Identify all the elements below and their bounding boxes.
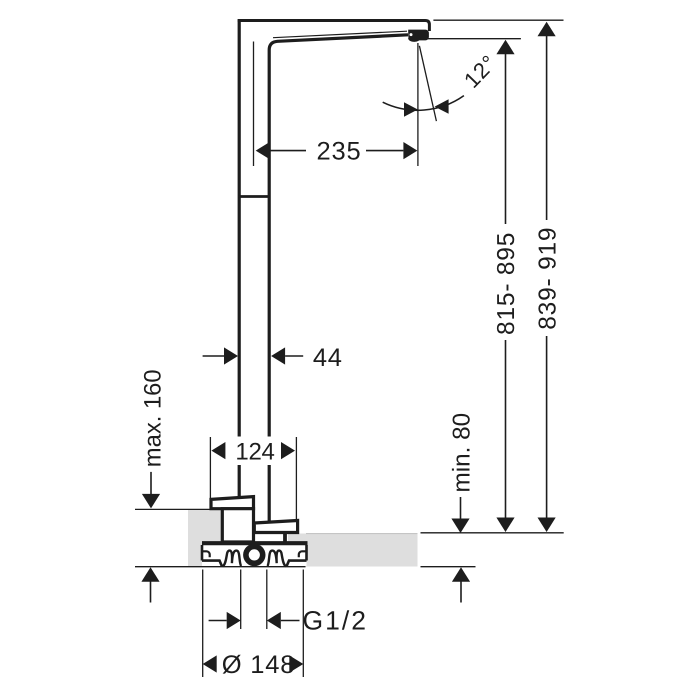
floor line bottom left: [135, 566, 306, 568]
spout underside thin line: [273, 31, 407, 38]
dim 815-895: [496, 40, 514, 55]
riser under step3: [283, 532, 287, 542]
nozzle: [408, 30, 429, 41]
svg-text:max. 160: max. 160: [139, 369, 166, 467]
floor gray left: [188, 510, 222, 567]
extension line 124 left: [209, 437, 211, 510]
dim 235: [256, 142, 270, 159]
flange left shelf: [202, 561, 222, 567]
flange top bar: [202, 541, 308, 545]
clip left: [223, 551, 242, 567]
floor line left top: [135, 508, 219, 510]
extension line G12 left: [240, 570, 242, 630]
svg-text:235: 235: [317, 138, 362, 166]
base step3: [254, 521, 297, 533]
svg-text:839- 919: 839- 919: [534, 227, 561, 330]
flange right shelf: [287, 561, 307, 567]
faucet top edge with right corner: [238, 21, 430, 32]
floor gray right: [288, 534, 418, 567]
dim 44: [203, 355, 225, 357]
column joint line: [238, 195, 268, 198]
extension line top (839-919): [433, 19, 563, 21]
spout underside thick + column right edge: [269, 35, 408, 522]
extension line d148 left: [202, 570, 204, 678]
svg-text:815- 895: 815- 895: [493, 232, 520, 335]
floor line right top: [421, 532, 564, 534]
extension line 235 right: [417, 43, 419, 166]
svg-text:Ø 148: Ø 148: [222, 651, 295, 679]
clip right: [267, 551, 286, 567]
dim G12: [209, 620, 227, 622]
svg-text:min. 80: min. 80: [448, 413, 475, 493]
floor line bottom right: [421, 566, 476, 568]
svg-text:44: 44: [313, 344, 343, 372]
extension line G12 right: [266, 570, 268, 630]
extension line 124 right: [295, 437, 297, 520]
center ring: [246, 547, 263, 564]
angle arc 12deg: [383, 96, 464, 111]
dim 124: [230, 437, 280, 466]
extension line 235 left: [253, 42, 255, 167]
faucet column left edge: [238, 19, 241, 498]
tilted line 12deg: [419, 46, 436, 121]
base step1: [211, 497, 254, 509]
dim d148: [203, 655, 217, 672]
dim 839-919: [538, 22, 556, 37]
flange right hook: [299, 551, 306, 557]
svg-text:124: 124: [235, 438, 274, 465]
flange body: [202, 545, 307, 566]
flange left hook: [203, 551, 210, 557]
extension line outlet (815-895): [422, 38, 521, 40]
extension line d148 right: [302, 570, 304, 678]
svg-text:G1/2: G1/2: [303, 605, 368, 635]
base step2: [222, 509, 253, 542]
